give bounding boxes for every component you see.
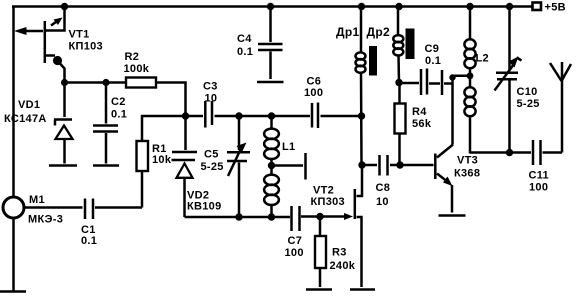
wire oscillator tank (y=116) [186,112,362,119]
svg-text:100: 100 [529,182,548,194]
svg-text:Др1: Др1 [336,25,359,39]
svg-text:C11: C11 [529,170,549,182]
node R2/R1/VD2 [182,112,189,119]
svg-text:К368: К368 [454,168,480,180]
transistor VT1 КП103 [14,7,103,84]
svg-text:МКЭ-3: МКЭ-3 [28,214,63,226]
svg-text:VT2: VT2 [313,185,334,197]
svg-text:C10: C10 [517,86,538,98]
svg-text:КВ109: КВ109 [187,201,222,213]
choke Др1 [336,7,377,166]
svg-text:C7: C7 [288,235,303,247]
svg-text:10: 10 [376,196,389,208]
svg-text:L1: L1 [282,141,295,153]
svg-text:0.1: 0.1 [237,46,253,58]
svg-text:R2: R2 [125,51,140,63]
svg-text:М1: М1 [29,194,45,206]
svg-text:Др2: Др2 [367,25,390,39]
svg-text:VT1: VT1 [69,29,90,41]
capacitor C8 10 [376,155,391,208]
wire output row (y=152.5) [470,149,562,156]
wire +5V top rail [12,5,533,8]
inductor L1 [264,116,295,217]
varicap VD2 КВ109 [172,116,222,217]
wire L1 tap [268,162,303,169]
svg-text:C3: C3 [203,81,218,93]
microphone M1 МКЭ-3 [3,194,63,226]
svg-text:С8: С8 [376,182,391,194]
svg-text:10k: 10k [152,154,172,166]
svg-text:VT3: VT3 [457,155,478,167]
svg-text:VD1: VD1 [18,99,40,111]
svg-text:5-25: 5-25 [201,161,224,173]
ground (VT3 emitter) [439,214,466,217]
zener VD1 КС147А [4,83,73,164]
capacitor C9 0.1 [399,43,453,95]
capacitor C11 100 [529,140,549,194]
svg-text:C5: C5 [204,149,219,161]
antenna [550,62,571,153]
ground (VD1) [49,164,77,167]
wire VT1 source node (y=82) [61,79,126,86]
wire C8 row (y=165) [362,161,434,168]
svg-text:R3: R3 [332,247,347,259]
capacitor C2 0.1 [93,83,127,164]
resistor R1 10k [137,116,186,208]
svg-text:100: 100 [285,247,304,259]
svg-text:R4: R4 [412,106,427,118]
svg-text:0.1: 0.1 [81,235,97,247]
wire L2 tap to VT3 collector [449,72,473,144]
+5V terminal [533,2,566,14]
ground (R3) [306,288,332,291]
capacitor C1 0.1 [25,199,143,248]
svg-text:0.1: 0.1 [425,55,441,67]
ground (bottom left) [0,290,26,293]
ground (L1 tap, rotated) [304,153,307,180]
wire left ground rail [12,6,15,292]
resistor R3 240k [315,217,356,288]
svg-text:КС147А: КС147А [4,113,47,125]
svg-text:56k: 56k [412,118,432,130]
trimmer C10 5-25 [495,3,540,153]
svg-text:5-25: 5-25 [517,98,540,110]
resistor R4 56k [395,83,432,166]
svg-text:C4: C4 [237,33,252,45]
rail junction dots [61,3,474,10]
inductor L2 [464,7,489,154]
capacitor C6 100 [304,76,323,129]
capacitor C7 100 [285,206,304,259]
ground (VT2 source) [350,288,375,291]
svg-text:0.1: 0.1 [111,109,127,121]
node VT2 drain / C8 [358,112,366,168]
svg-text:100: 100 [304,87,323,99]
svg-text:+5В: +5В [545,2,566,14]
resistor R2 100k [124,51,186,116]
choke Др2 with core [367,7,415,87]
svg-text:КП303: КП303 [311,196,345,208]
svg-text:L2: L2 [476,53,489,65]
trimmer C5 5-25 [201,116,251,217]
ground (C2) [93,164,119,167]
svg-text:100k: 100k [124,63,150,75]
capacitor C4 0.1 [237,7,283,80]
svg-text:С9: С9 [425,43,440,55]
wire VT2 gate net (y=217) [185,213,348,221]
svg-text:КП103: КП103 [69,41,103,53]
svg-text:C6: C6 [307,76,322,88]
ground (C4) [257,81,284,84]
svg-text:10: 10 [205,93,218,105]
svg-text:C2: C2 [111,96,126,108]
svg-text:240k: 240k [330,260,356,272]
transistor VT3 К368 [435,145,480,213]
capacitor C3 10 [203,81,218,128]
transistor VT2 КП303 [311,165,363,287]
